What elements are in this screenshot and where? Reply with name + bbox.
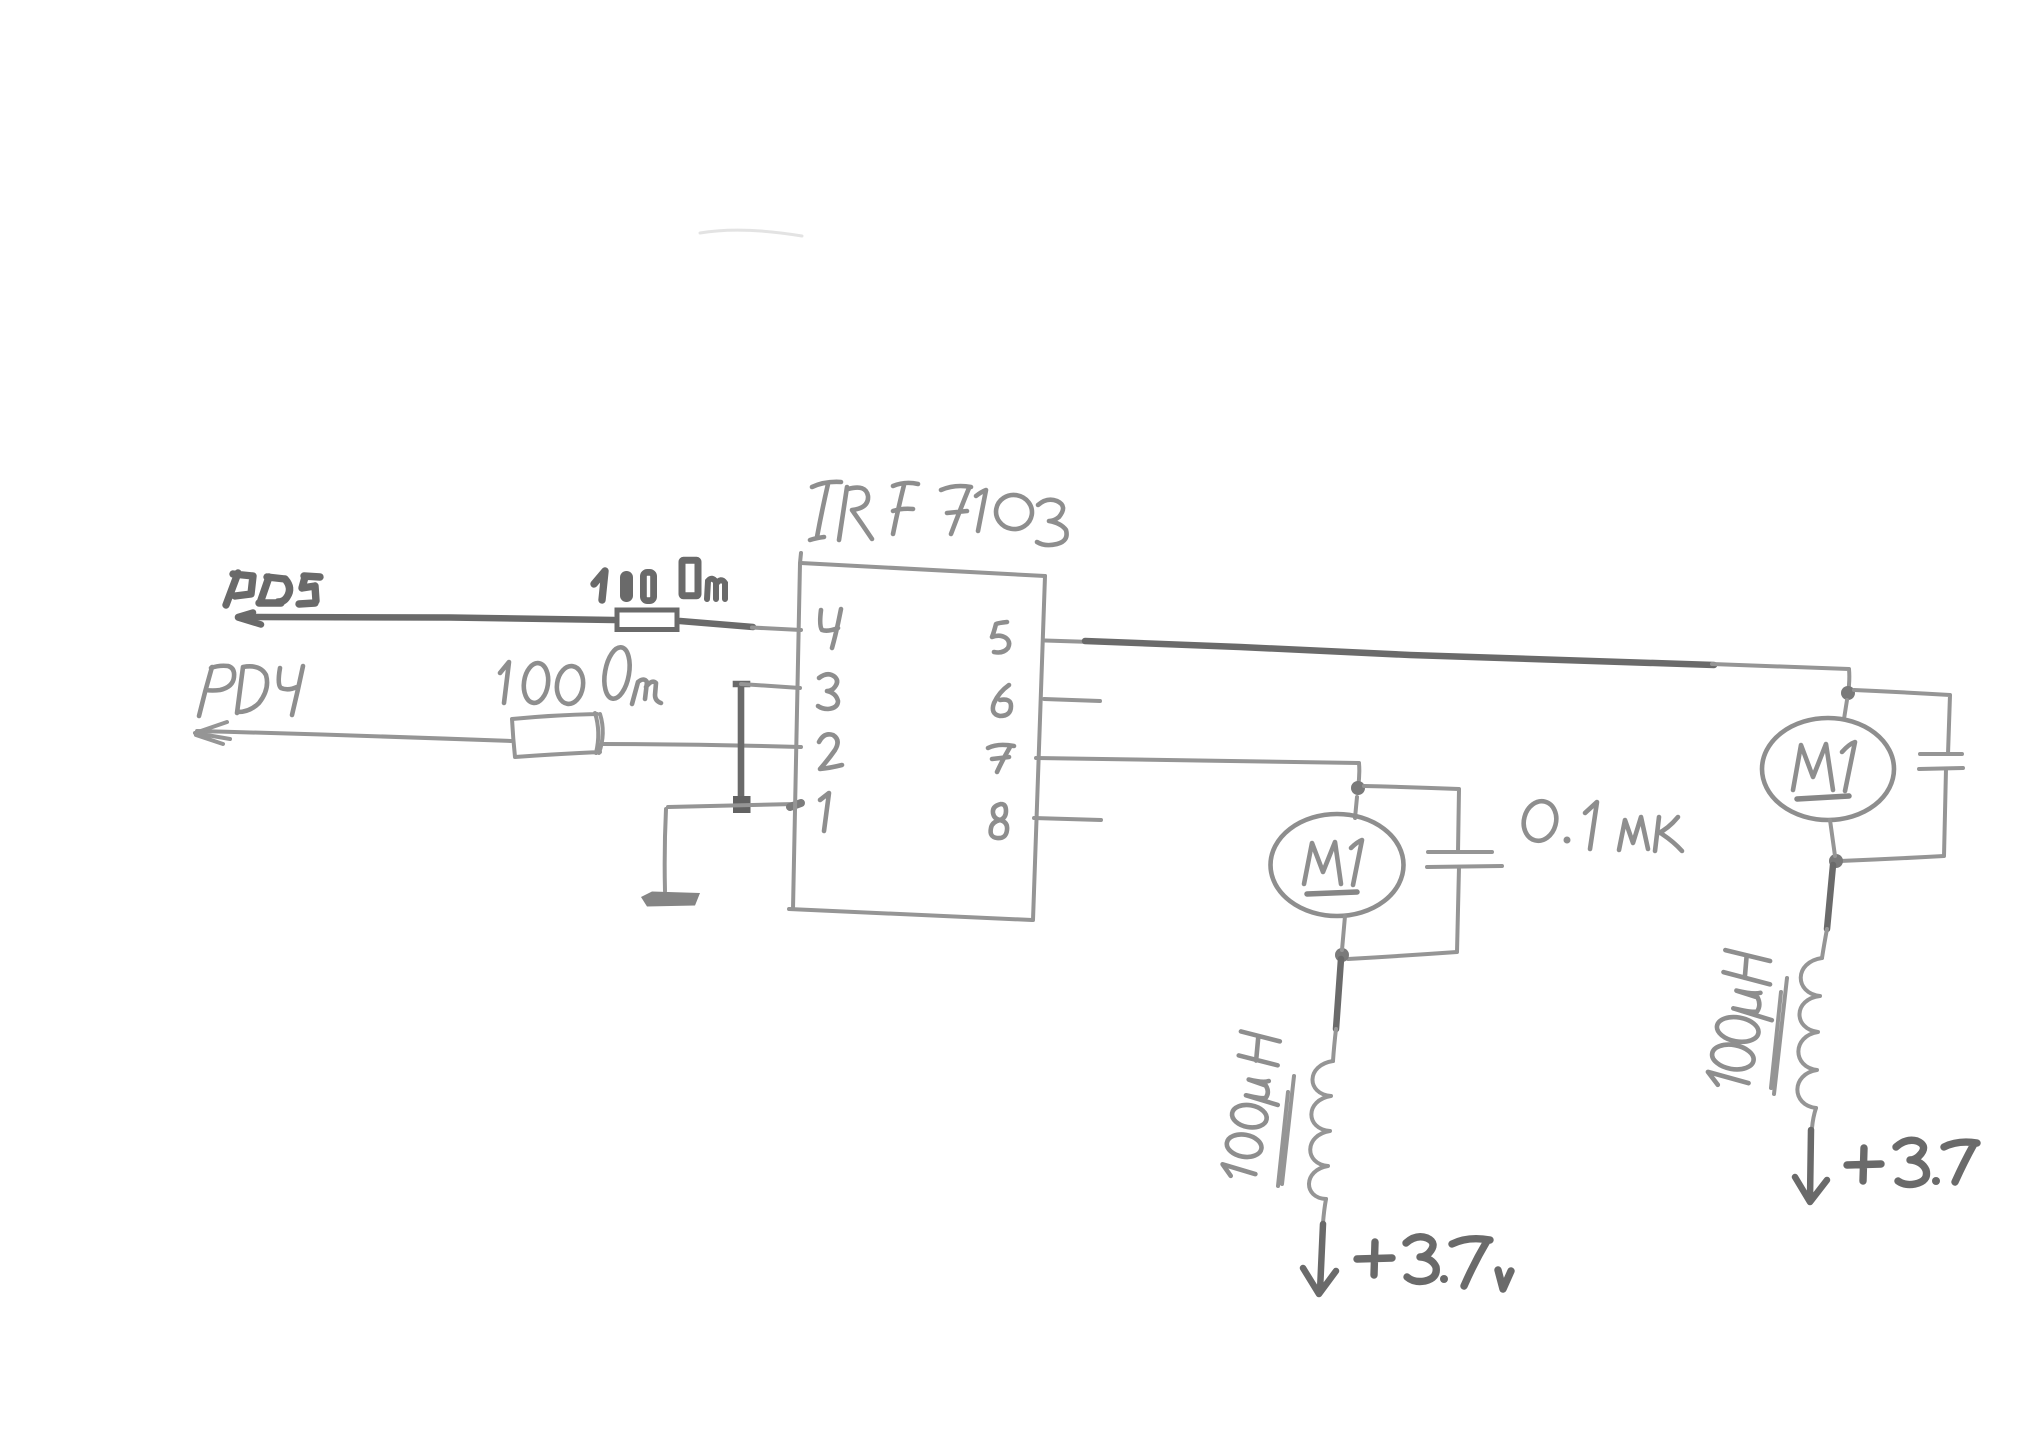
junction node top of right motor	[1841, 686, 1855, 700]
wire pin3 to pin1 (dark vertical)	[736, 684, 747, 797]
wire PD5 with left arrow	[238, 613, 614, 625]
pin 4 number	[820, 609, 841, 648]
capacitor C1 lower wire	[1348, 867, 1459, 959]
pin 8 stub wire	[1034, 818, 1101, 820]
junction node top of left motor	[1351, 781, 1365, 795]
wire to inductor L1 (pencil)	[1333, 1029, 1336, 1061]
node PD4 label	[199, 666, 303, 716]
power arrow +3.7v left	[1303, 1224, 1336, 1294]
junction square pins 1-2-3	[733, 796, 751, 813]
pin 3 number	[818, 674, 838, 709]
inductor L1 coil	[1309, 1061, 1333, 1199]
wire below L2	[1812, 1108, 1816, 1128]
wire R1 to pin 4	[680, 621, 801, 630]
ground	[641, 892, 700, 907]
capacitor C1 value label 0.1mk	[1519, 798, 1682, 851]
wire PD4 with left arrow	[195, 722, 511, 744]
capacitor C1 left: wire from junction	[1364, 786, 1459, 852]
resistor R1 value label 100 Om (dark)	[594, 560, 725, 600]
wire to inductor L2 (pencil)	[1822, 929, 1827, 958]
pin 5 stub wire	[1045, 641, 1092, 643]
resistor R1 (dark)	[617, 610, 677, 630]
motor M1 left	[1271, 814, 1404, 916]
capacitor C2 lower wire	[1840, 769, 1946, 861]
pin 7 number	[988, 745, 1014, 772]
wire pin7 long to left motor	[1036, 758, 1359, 787]
power arrow +3.7 right	[1795, 1130, 1827, 1202]
wire pin5 long (pencil segment to corner)	[1712, 664, 1849, 694]
pin 3 stub wire	[741, 684, 800, 688]
capacitor C1 plates	[1427, 852, 1502, 867]
power label +3.7 right	[1847, 1140, 1977, 1185]
junction node bottom of right motor	[1829, 854, 1843, 868]
inductor L2 core lines	[1771, 978, 1787, 1094]
wire to inductor L2 (dark stub)	[1827, 865, 1833, 929]
wire junction to right motor	[1844, 700, 1847, 719]
paper smudge top middle	[700, 230, 802, 236]
inductor L2 coil	[1797, 958, 1822, 1108]
inductor L1 value label 100uH (rotated)	[1216, 1031, 1289, 1181]
power label +3.7v left	[1357, 1237, 1511, 1289]
IC U1 label IRF7103	[810, 482, 1067, 545]
junction node bottom of left motor	[1335, 948, 1349, 962]
pin 5 number	[992, 622, 1009, 653]
motor M1 right	[1762, 718, 1894, 820]
pin 6 number	[993, 685, 1011, 716]
wire to inductor L1 (dark stub)	[1336, 959, 1341, 1029]
wire pin 1 stub	[668, 803, 801, 807]
resistor R2 value label 100 Om (pencil)	[500, 645, 661, 705]
wire pin5 long (dark segment)	[1085, 641, 1714, 665]
wire R2 to pin 2	[602, 744, 801, 747]
pin 1 number	[820, 793, 829, 831]
node PD5 label	[226, 573, 320, 605]
IC U1 IRF7103 body	[789, 553, 1045, 920]
inductor L1 core lines	[1278, 1076, 1294, 1186]
resistor R2 (pencil)	[512, 713, 603, 757]
inductor L2 value label 100uH (rotated)	[1702, 950, 1782, 1092]
wire left motor bottom	[1342, 916, 1345, 950]
pin 6 stub wire	[1044, 699, 1100, 701]
wire below L1	[1323, 1199, 1326, 1223]
pin 2 number	[819, 734, 842, 769]
capacitor C2 plates	[1919, 754, 1963, 769]
pin 8 number	[991, 804, 1008, 838]
wire junction to ground	[665, 809, 666, 891]
wire junction to left motor	[1355, 797, 1357, 818]
wire right motor bottom	[1830, 820, 1835, 856]
capacitor C2 right: wire from junction	[1854, 690, 1950, 754]
